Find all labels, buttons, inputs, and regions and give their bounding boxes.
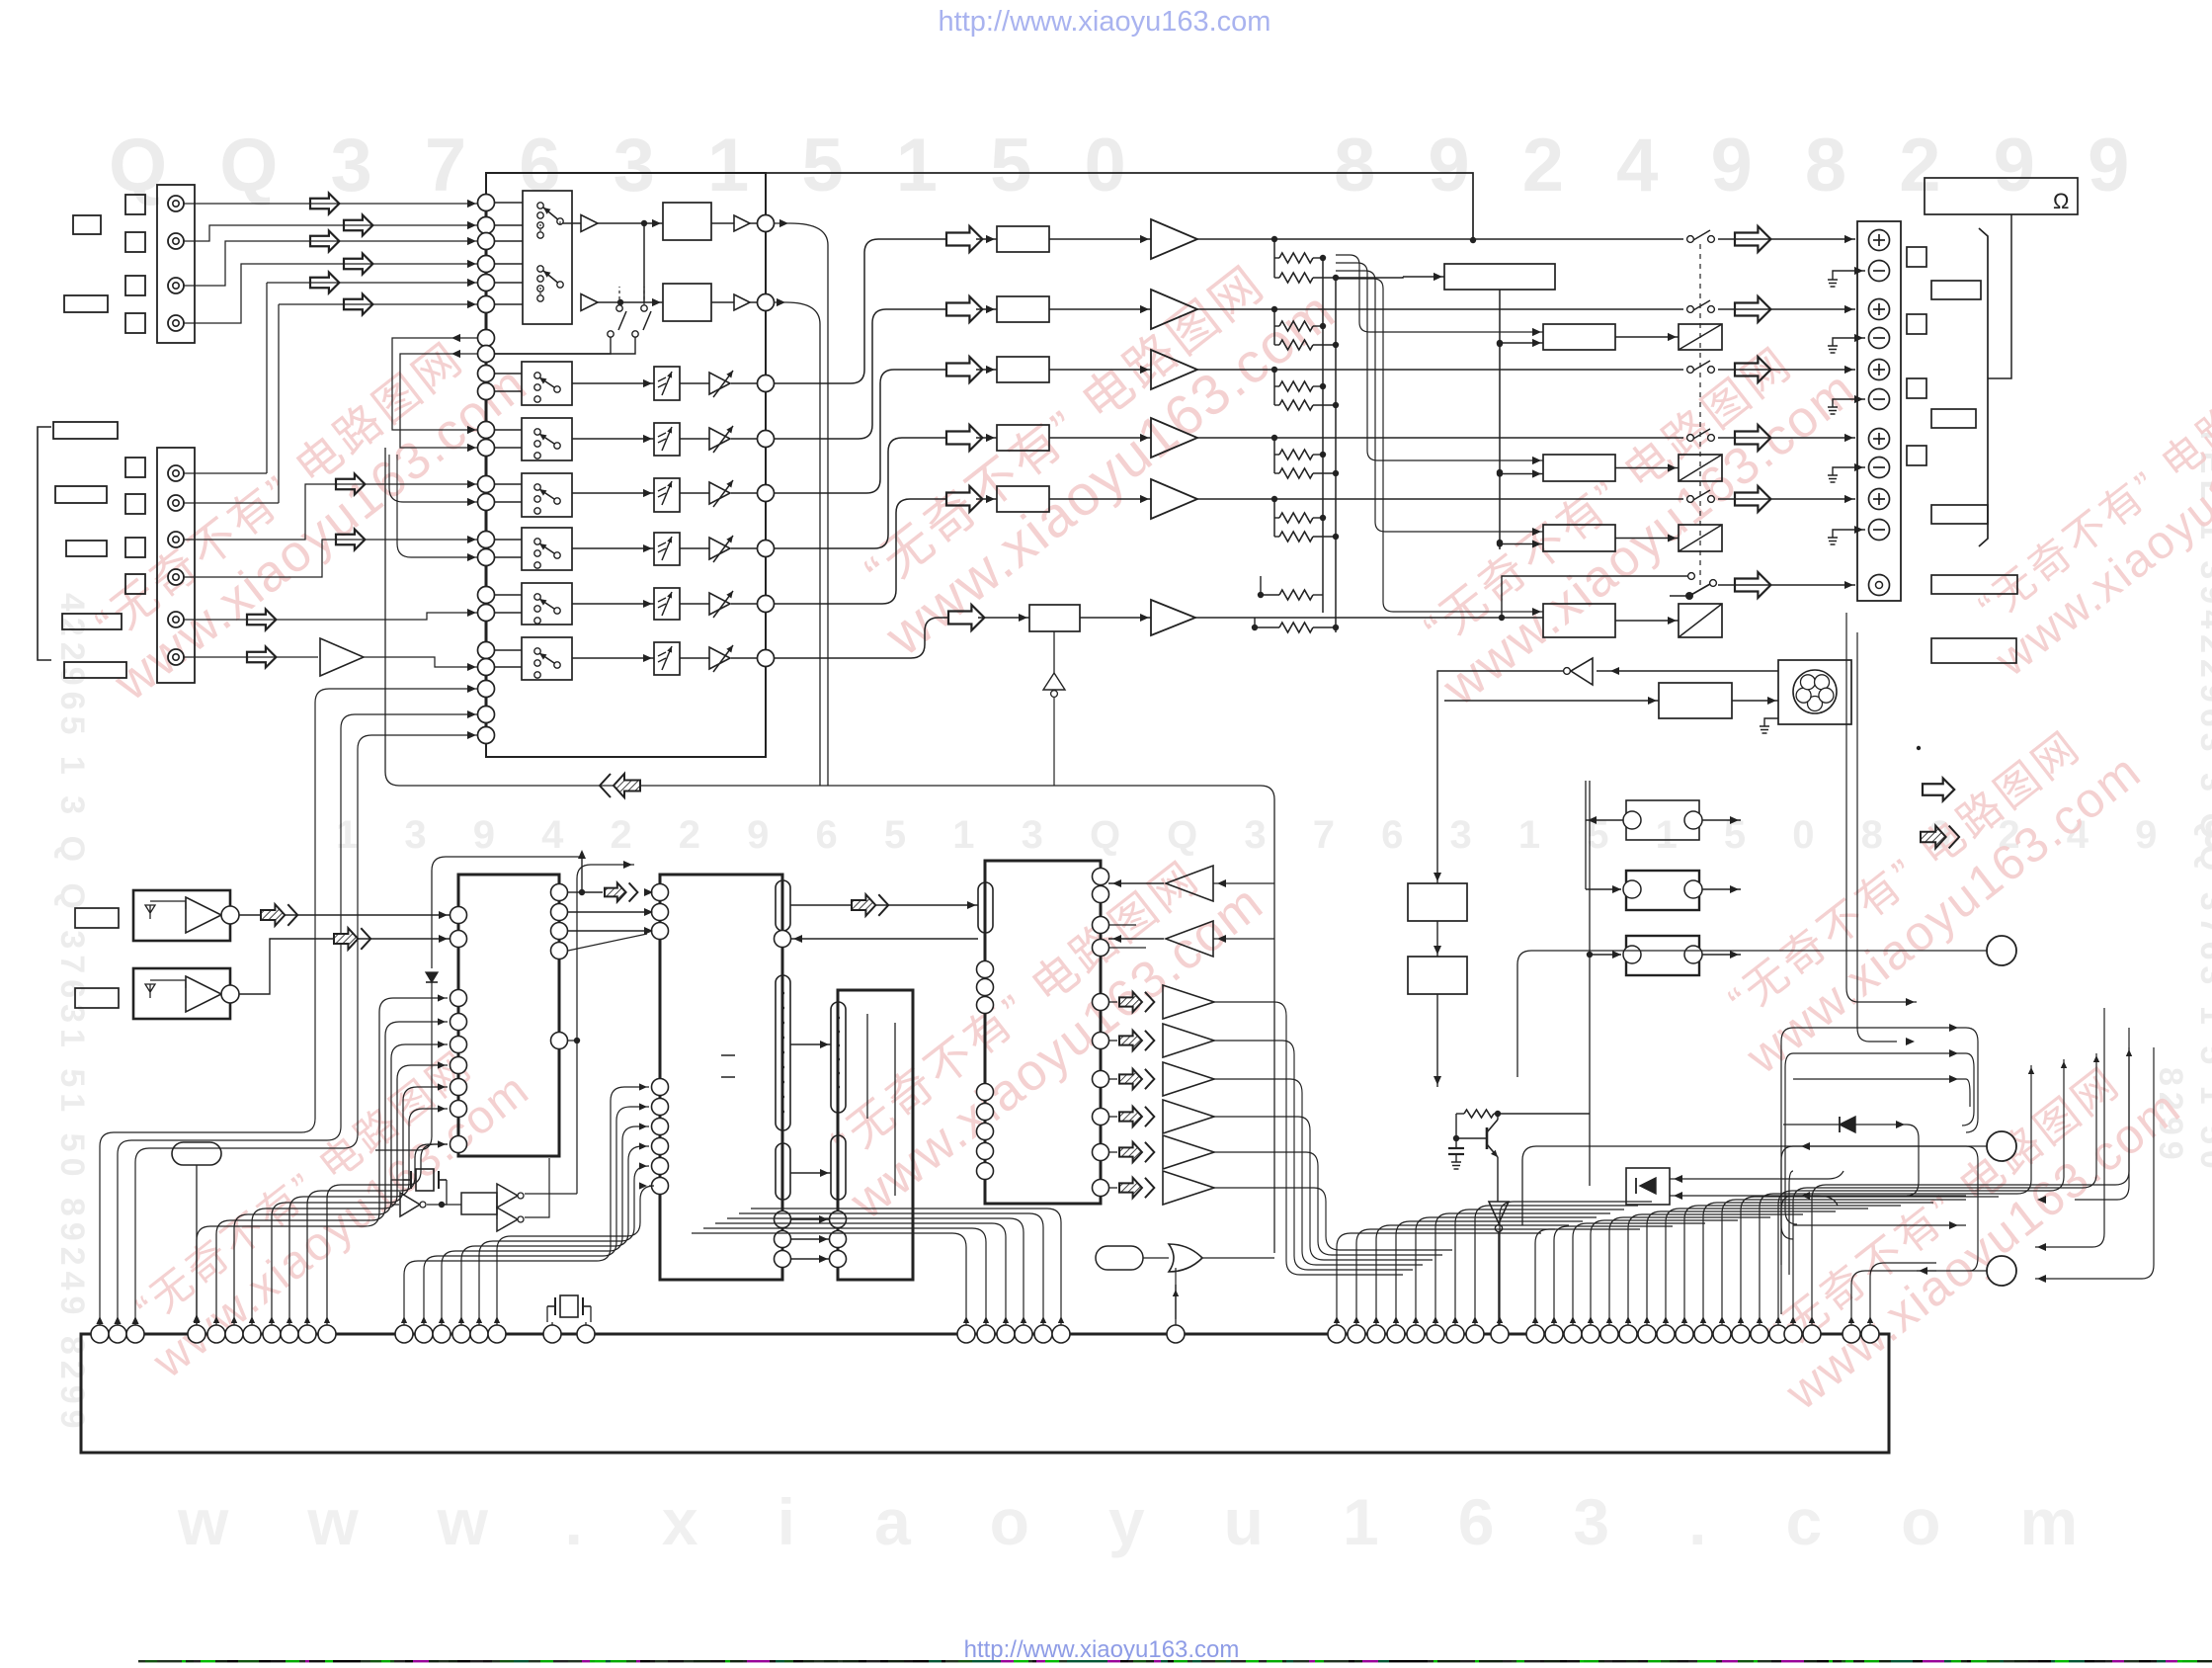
transistor Q1 — [1486, 1127, 1489, 1149]
wire amp2 output — [1197, 308, 1683, 310]
wire bus to selector — [494, 263, 523, 265]
U1 left pin in2 — [451, 931, 467, 948]
resistor R5 — [1274, 385, 1279, 387]
arrow input 8 — [336, 530, 365, 550]
wire node link — [643, 223, 645, 302]
U4 left pin 3 — [977, 997, 994, 1014]
connector pin 36 — [1526, 1325, 1544, 1343]
RCA jack J6 — [168, 495, 184, 511]
speaker terminal -4 — [1869, 458, 1890, 478]
U4 right pin 8 — [1093, 1109, 1109, 1126]
U1 right pin 5 — [551, 1033, 568, 1049]
speaker terminal +1 — [1869, 230, 1890, 251]
wire mute to circle — [731, 603, 757, 605]
wire eq to out B — [711, 301, 734, 303]
ground speaker 4 — [1828, 475, 1838, 482]
speaker relay switch 3 — [1687, 367, 1694, 374]
wire U1-U2 spi1 — [568, 891, 582, 893]
wire U1 up — [581, 852, 583, 892]
IC U3 memory — [838, 990, 913, 1280]
watermark red diagonal 6 — [1743, 1039, 2190, 1421]
U4 right pin 10 — [1093, 1180, 1109, 1197]
U3 left pin 2 — [830, 1231, 847, 1248]
sub driver box — [1543, 604, 1615, 637]
dac box 1 — [997, 226, 1049, 252]
osc inverter 2 — [497, 1184, 518, 1208]
line out buffer 2 — [1119, 1031, 1154, 1050]
wire output circle 1 — [1517, 951, 1987, 1077]
wire VR to mute — [680, 603, 709, 605]
U2 port pill 3 — [776, 1143, 790, 1200]
diode D1 — [426, 972, 438, 982]
wire loop to row 507 — [389, 474, 477, 502]
osc buffer box — [461, 1193, 497, 1214]
connector pin 44 — [1676, 1325, 1693, 1343]
U2 left pin 5 — [652, 1099, 669, 1116]
RCA jack J5 — [168, 465, 184, 481]
mute amp M5 — [709, 593, 730, 615]
bundle right verticals — [1781, 1028, 1793, 1239]
left label rect ir2 — [75, 988, 119, 1008]
connector pin 10 — [298, 1325, 316, 1343]
bottom scan noise line — [138, 1660, 2212, 1662]
jumper box J1 — [1626, 800, 1699, 840]
arrow legend hatched — [1921, 826, 1959, 849]
speaker label rect 1 — [1931, 281, 1981, 299]
attenuator VR1 — [654, 367, 680, 400]
bus aux circles — [478, 681, 495, 698]
wire inverter out — [1437, 671, 1563, 883]
connector pin 8 — [263, 1325, 281, 1343]
U1 left pin low — [451, 1136, 467, 1153]
wire bus pair to S6 — [494, 594, 522, 596]
arrow amp input 6 — [948, 605, 984, 630]
wire osc out 1 — [525, 1193, 577, 1195]
watermark red diagonal 5 — [1703, 703, 2151, 1085]
U4 right pin 1 — [1093, 869, 1109, 885]
resistor R9 — [1274, 517, 1279, 519]
status pill — [1096, 1246, 1143, 1270]
IR1 out circle — [221, 906, 239, 924]
wire mute to circle — [731, 382, 757, 384]
source select box S3 — [522, 418, 572, 460]
jumper box J2 — [1626, 871, 1699, 910]
U1 right pin 1 — [551, 884, 568, 901]
fan drive box — [1659, 683, 1732, 718]
wire amp3 output — [1197, 369, 1683, 371]
U1 left pin 6 — [451, 1057, 467, 1074]
wire S5 to VR4 — [572, 547, 654, 549]
U1 left pin 3 — [451, 990, 467, 1007]
bundle left arrows — [96, 1316, 103, 1324]
connector pin 1 — [91, 1325, 109, 1343]
IC U4 decoder — [985, 861, 1101, 1204]
speaker label rect 2 — [1931, 409, 1976, 428]
wire bus pair to S2 — [494, 373, 522, 375]
diode box — [1626, 1168, 1670, 1205]
wire matrix out row6 to sub row — [775, 618, 948, 658]
wire jack2 to bus — [184, 225, 477, 241]
connector pin 15 — [452, 1325, 470, 1343]
wire driver to relay 2 — [1615, 467, 1679, 469]
wire matrix out row5 to amp row — [775, 499, 946, 604]
wire IR2 to U1 — [239, 939, 450, 994]
U4 left pin 2 — [977, 979, 994, 996]
svg-text:http://www.xiaoyu163.com: http://www.xiaoyu163.com — [939, 6, 1271, 38]
buffer into U4 a — [1166, 866, 1213, 901]
watermark red diagonal 1 — [69, 310, 538, 712]
svg-text:422965 1 3 Q Q 37631 51 50: 422965 1 3 Q Q 37631 51 50 89249 8299 — [53, 593, 91, 1435]
bundle vertical long 2 — [2035, 1008, 2104, 1247]
relay box K1 — [1679, 324, 1722, 350]
output circle 1 — [1987, 936, 2016, 965]
wire dac to amp 3 — [1049, 369, 1151, 371]
selector switch wafer A — [537, 203, 543, 208]
wire to bus row6 — [184, 304, 477, 503]
U3 left pin 1 — [830, 1211, 847, 1228]
power amp 3 — [1151, 350, 1197, 389]
wire jack3 to bus — [184, 241, 477, 286]
U1 right pin 3 — [551, 923, 568, 940]
arrow to sub terminal — [1735, 572, 1770, 598]
relay box K2 — [1679, 455, 1722, 481]
speaker terminal strip — [1857, 221, 1901, 601]
U4 left pin low 2 — [977, 1104, 994, 1121]
wire out A down — [775, 223, 828, 786]
resistor R3 — [1274, 325, 1279, 327]
wire U1-U2 spi4 — [568, 934, 647, 951]
input pad square 3 — [125, 276, 145, 295]
bundle B group — [1535, 1229, 1640, 1325]
wire bias left — [1455, 1114, 1457, 1138]
input connector block small rect B — [64, 295, 108, 312]
IR receiver module 2 — [133, 968, 230, 1019]
wire aux feeder 2 — [118, 714, 477, 1325]
wire matrix top to right — [766, 173, 1473, 240]
connector pin 47 — [1732, 1325, 1750, 1343]
bundle vertical long 1 — [1846, 613, 1917, 1002]
U1 right pin 2 — [551, 904, 568, 921]
U1 left pin in1 — [451, 907, 467, 924]
feedback node row2 — [1271, 306, 1277, 312]
wire oval to pin — [196, 1165, 198, 1325]
watermark red diagonal 3 — [805, 829, 1274, 1231]
wire U2-U3 bus2 — [790, 1172, 831, 1174]
fan — [1778, 660, 1851, 724]
fan inverter — [1571, 658, 1593, 685]
connector pin 11 — [318, 1325, 336, 1343]
resistor R11 — [1258, 592, 1264, 598]
wire bus pair to S4 — [494, 483, 522, 485]
U4 right pin 9 — [1093, 1144, 1109, 1161]
connector pin 3 — [126, 1325, 144, 1343]
wire diode D2 — [1783, 1124, 1907, 1126]
connector pin 2 — [109, 1325, 126, 1343]
wire bus pair to S3 — [494, 429, 522, 431]
impedance box — [1925, 178, 2078, 214]
wire bus to selector — [494, 240, 523, 242]
matrix out circle B — [758, 294, 775, 311]
mid box M1 — [1408, 883, 1467, 921]
wire aux feeder 3 — [135, 735, 477, 1325]
connector pin 21 — [977, 1325, 995, 1343]
RCA jack J8 — [168, 569, 184, 585]
resistor R10 — [1274, 536, 1279, 538]
input connector block small rect A — [73, 215, 101, 234]
fan ground — [1764, 718, 1778, 726]
wire diode box in2 — [1670, 1196, 1838, 1206]
capacitor bias — [1448, 1147, 1464, 1149]
line out buffer 1 — [1119, 992, 1154, 1012]
selector switch wafer B — [537, 266, 543, 272]
attenuator VR6 — [654, 642, 680, 675]
bundle right horizontals — [1793, 1027, 1966, 1029]
wire loop to row 564 — [397, 494, 477, 557]
sub terminal — [1869, 575, 1890, 596]
feedback line 1 — [1336, 255, 1543, 332]
input pad square 4 — [125, 313, 145, 333]
dac box 5 — [997, 486, 1049, 512]
wire out buffer 2 — [1214, 1041, 1413, 1270]
U4 right pin 2 — [1093, 886, 1109, 903]
U2 left pin 8 — [652, 1158, 669, 1175]
connector pin 31 — [1407, 1325, 1425, 1343]
resistor rail A — [1322, 258, 1324, 613]
dac box 6 — [1029, 605, 1080, 631]
feedback node row4 — [1271, 435, 1277, 441]
mute amp M6 — [709, 647, 730, 669]
wire protection to driver 3 — [1500, 543, 1543, 545]
mid box M2 — [1408, 957, 1467, 994]
ground speaker 1 — [1828, 280, 1838, 287]
U2 left pin 9 — [652, 1178, 669, 1195]
left label rect 1 — [53, 422, 118, 439]
connector pin 9 — [281, 1325, 298, 1343]
wire output circle 3 — [1917, 1270, 1987, 1272]
connector pin 51 — [1803, 1325, 1821, 1343]
resistor R7 — [1274, 454, 1279, 456]
arrow input 6 — [344, 294, 372, 315]
IC U1 system control — [458, 875, 559, 1156]
U2 left pin 7 — [652, 1138, 669, 1155]
U4 left pin low 4 — [977, 1143, 994, 1160]
matrix box outline — [486, 173, 766, 757]
power amp 2 — [1151, 290, 1197, 329]
wire bus to selector — [494, 282, 523, 284]
connector pin 45 — [1694, 1325, 1712, 1343]
wire amp4 output — [1197, 437, 1683, 439]
wire fan drive to fan — [1732, 700, 1778, 702]
connector pin 42 — [1638, 1325, 1656, 1343]
connector pin 39 — [1582, 1325, 1599, 1343]
wire J2 feed — [1585, 781, 1587, 889]
arrow amp input 5 — [946, 486, 982, 512]
wire tri to circle B — [750, 301, 757, 303]
wire bias right — [1498, 1113, 1590, 1115]
wire eq to out A — [711, 222, 734, 224]
wire pill to or — [1143, 1257, 1169, 1259]
input pad square 6 — [125, 494, 145, 514]
left label rect 2 — [55, 486, 107, 503]
wire bus to selector — [494, 303, 523, 305]
bundle P pair — [1851, 1271, 1936, 1325]
buffer into U4 b — [1166, 921, 1213, 957]
crystal X2 — [554, 1297, 556, 1315]
wire S4 to VR3 — [572, 492, 654, 494]
wire jack1 to bus — [184, 203, 477, 205]
arrow input 10 — [247, 647, 276, 668]
arrow to terminal 4 — [1735, 425, 1770, 451]
wire X2 to pins — [551, 1322, 553, 1325]
connector pin 49 — [1769, 1325, 1787, 1343]
relay box K3 — [1679, 525, 1722, 551]
mute amp M1 — [709, 373, 730, 394]
connector pin 29 — [1367, 1325, 1385, 1343]
wire buffer B to tape eq B — [598, 301, 663, 303]
U4 right pin 7 — [1093, 1071, 1109, 1088]
wire to bus row5 — [184, 283, 477, 473]
wire dac to amp 2 — [1049, 308, 1151, 310]
line out buffer 3 — [1119, 1069, 1154, 1089]
U4 right pin 6 — [1093, 1033, 1109, 1049]
speaker terminal +3 — [1869, 360, 1890, 380]
connector pin 23 — [1015, 1325, 1032, 1343]
sub follower — [1053, 631, 1055, 673]
feedback line 2 — [1336, 263, 1543, 460]
input pad square 5 — [125, 458, 145, 477]
speaker terminal -3 — [1869, 389, 1890, 410]
wire dac to amp 1 — [1049, 238, 1151, 240]
U4 left pin low 5 — [977, 1163, 994, 1180]
dac box 2 — [997, 296, 1049, 322]
left label rect 3 — [66, 541, 107, 556]
power amp 1 — [1151, 219, 1197, 259]
RCA jack strip 2 — [157, 448, 195, 683]
wire to fan drive — [1444, 700, 1659, 702]
connector pin 34 — [1466, 1325, 1484, 1343]
driver box D1 — [1543, 324, 1615, 350]
U2 port pill 1 — [776, 880, 790, 931]
matrix bus line — [485, 198, 488, 741]
source select box S2 — [522, 362, 572, 405]
RCA jack J2 — [168, 233, 184, 249]
buffer amp A — [581, 215, 598, 232]
watermark red diagonal 8 — [1954, 321, 2212, 687]
terminal pad square 1 — [1907, 247, 1926, 267]
wire selector to buffer A — [563, 222, 581, 224]
reset oval — [172, 1142, 221, 1165]
wire S3 to VR2 — [572, 438, 654, 440]
connector pin 52 — [1843, 1325, 1860, 1343]
mute amp M4 — [709, 538, 730, 559]
wire impedance down — [1988, 214, 2011, 378]
source select box S6 — [522, 583, 572, 625]
wire jack7 to bus — [184, 484, 477, 540]
feedback node row5 — [1271, 496, 1277, 502]
wire follower to fb — [1053, 698, 1055, 786]
matrix out circle 5 — [758, 485, 775, 502]
RCA jack J10 — [168, 649, 184, 665]
matrix out circle 4 — [758, 431, 775, 448]
wire bus pair to S7 — [494, 649, 522, 651]
U4 right pin 5 — [1093, 994, 1109, 1011]
RCA jack J7 — [168, 532, 184, 547]
svg-text:Ω: Ω — [2053, 189, 2069, 213]
arrow to terminal 2 — [1735, 296, 1770, 322]
driver box D2 — [1543, 455, 1615, 481]
wire bus to selector — [494, 202, 523, 204]
wire S2 to VR1 — [572, 382, 654, 384]
wire U2-U3 bus1 — [790, 1043, 831, 1045]
connector pin 50 — [1784, 1325, 1802, 1343]
wire dac6 to amp6 — [1080, 617, 1151, 619]
power amp 5 — [1151, 479, 1197, 519]
U1 left pin 7 — [451, 1079, 467, 1096]
osc inverter 1 — [400, 1193, 420, 1216]
bus input circles top — [478, 195, 495, 211]
wire jack4 to bus — [184, 264, 477, 323]
rec feedback line — [385, 448, 1274, 1253]
connector pin 25 — [1052, 1325, 1070, 1343]
U2 left pin 2 — [652, 904, 669, 921]
wire matrix out row2 to amp row — [775, 309, 946, 439]
power amp 4 — [1151, 418, 1197, 458]
resistor R2 — [1274, 277, 1279, 279]
IR receiver module 1 — [133, 890, 230, 941]
U2 left pin 4 — [652, 1079, 669, 1096]
wire mute to circle — [731, 492, 757, 494]
wire out buffer 6 — [1214, 1188, 1452, 1250]
connector pin 13 — [415, 1325, 433, 1343]
wire amp6 out — [1195, 617, 1543, 619]
attenuator VR4 — [654, 533, 680, 565]
feedback node row3 — [1271, 367, 1277, 373]
feedback line 4 — [1336, 279, 1543, 612]
speaker terminal +4 — [1869, 429, 1890, 450]
line out buffer 6 — [1119, 1178, 1154, 1198]
input pad square 1 — [125, 195, 145, 214]
wire driver to relay 3 — [1615, 538, 1679, 540]
speaker label rect 5 — [1931, 638, 2016, 663]
connector pin 40 — [1600, 1325, 1618, 1343]
speaker terminal -1 — [1869, 261, 1890, 282]
connector pin 38 — [1564, 1325, 1582, 1343]
left label rect ir1 — [75, 908, 119, 928]
wire U1 net 2 — [577, 865, 634, 1194]
terminal pad square 3 — [1907, 378, 1926, 398]
arrow input 1 — [310, 194, 339, 214]
crystal X1 — [410, 1171, 412, 1189]
input selector box S1 — [523, 191, 572, 324]
arrow input 4 — [344, 254, 372, 275]
svg-text:Q Q 3 7 6 3 1 5 1 5 0: Q Q 3 7 6 3 1 5 1 5 0 — [109, 124, 1142, 208]
wire U1-U2 spi3 — [568, 930, 651, 932]
connector pin 33 — [1446, 1325, 1464, 1343]
source select box S7 — [522, 637, 572, 680]
svg-text:8 9 2 4 9 8 2 9 9: 8 9 2 4 9 8 2 9 9 — [1334, 124, 2145, 208]
wire driver to relay 1 — [1615, 336, 1679, 338]
arrow input 2 — [344, 215, 372, 236]
wire protection to driver 1 — [1500, 342, 1543, 344]
wire sub branch up — [1502, 576, 1687, 618]
dac box 4 — [997, 425, 1049, 451]
connector pin 12 — [395, 1325, 413, 1343]
U1 left pin 8 — [451, 1101, 467, 1118]
connector pin 48 — [1751, 1325, 1768, 1343]
U4 right pin 4 — [1093, 940, 1109, 957]
wire dac to amp 4 — [1049, 437, 1151, 439]
output circle 3 — [1987, 1256, 2016, 1286]
